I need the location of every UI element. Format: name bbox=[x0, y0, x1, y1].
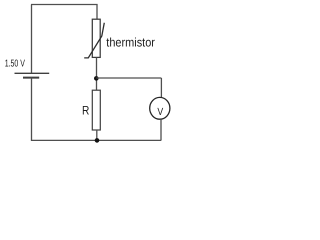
thermistor diagonal stroke with foot bbox=[84, 23, 104, 58]
svg-text:V: V bbox=[157, 107, 163, 118]
voltmeter V body circle bbox=[150, 97, 170, 119]
svg-text:R: R bbox=[82, 104, 89, 118]
wire top from battery branch to thermistor branch bbox=[31, 4, 98, 6]
wire thermistor top lead bbox=[96, 5, 98, 20]
node B junction dot (bottom) bbox=[95, 138, 100, 143]
wire voltmeter top lead (vertical) bbox=[160, 78, 162, 98]
node A junction dot bbox=[94, 76, 99, 81]
battery cell 1.50 V : long positive plate bbox=[15, 72, 50, 74]
svg-text:thermistor: thermistor bbox=[106, 35, 155, 49]
battery cell 1.50 V : short negative plate bbox=[23, 77, 39, 79]
thermistor body box bbox=[92, 19, 100, 57]
wire left upper (battery top lead) bbox=[31, 5, 33, 74]
svg-text:1.50 V: 1.50 V bbox=[5, 59, 25, 70]
wire resistor bottom lead bbox=[96, 130, 98, 140]
wire thermistor bottom lead to node A bbox=[96, 57, 98, 90]
wire left lower (battery bottom lead) bbox=[31, 78, 33, 141]
wire voltmeter bottom lead bbox=[160, 119, 162, 140]
resistor R body box bbox=[92, 90, 100, 130]
wire bottom bbox=[31, 139, 161, 141]
wire node A to voltmeter branch (horizontal) bbox=[96, 77, 161, 79]
